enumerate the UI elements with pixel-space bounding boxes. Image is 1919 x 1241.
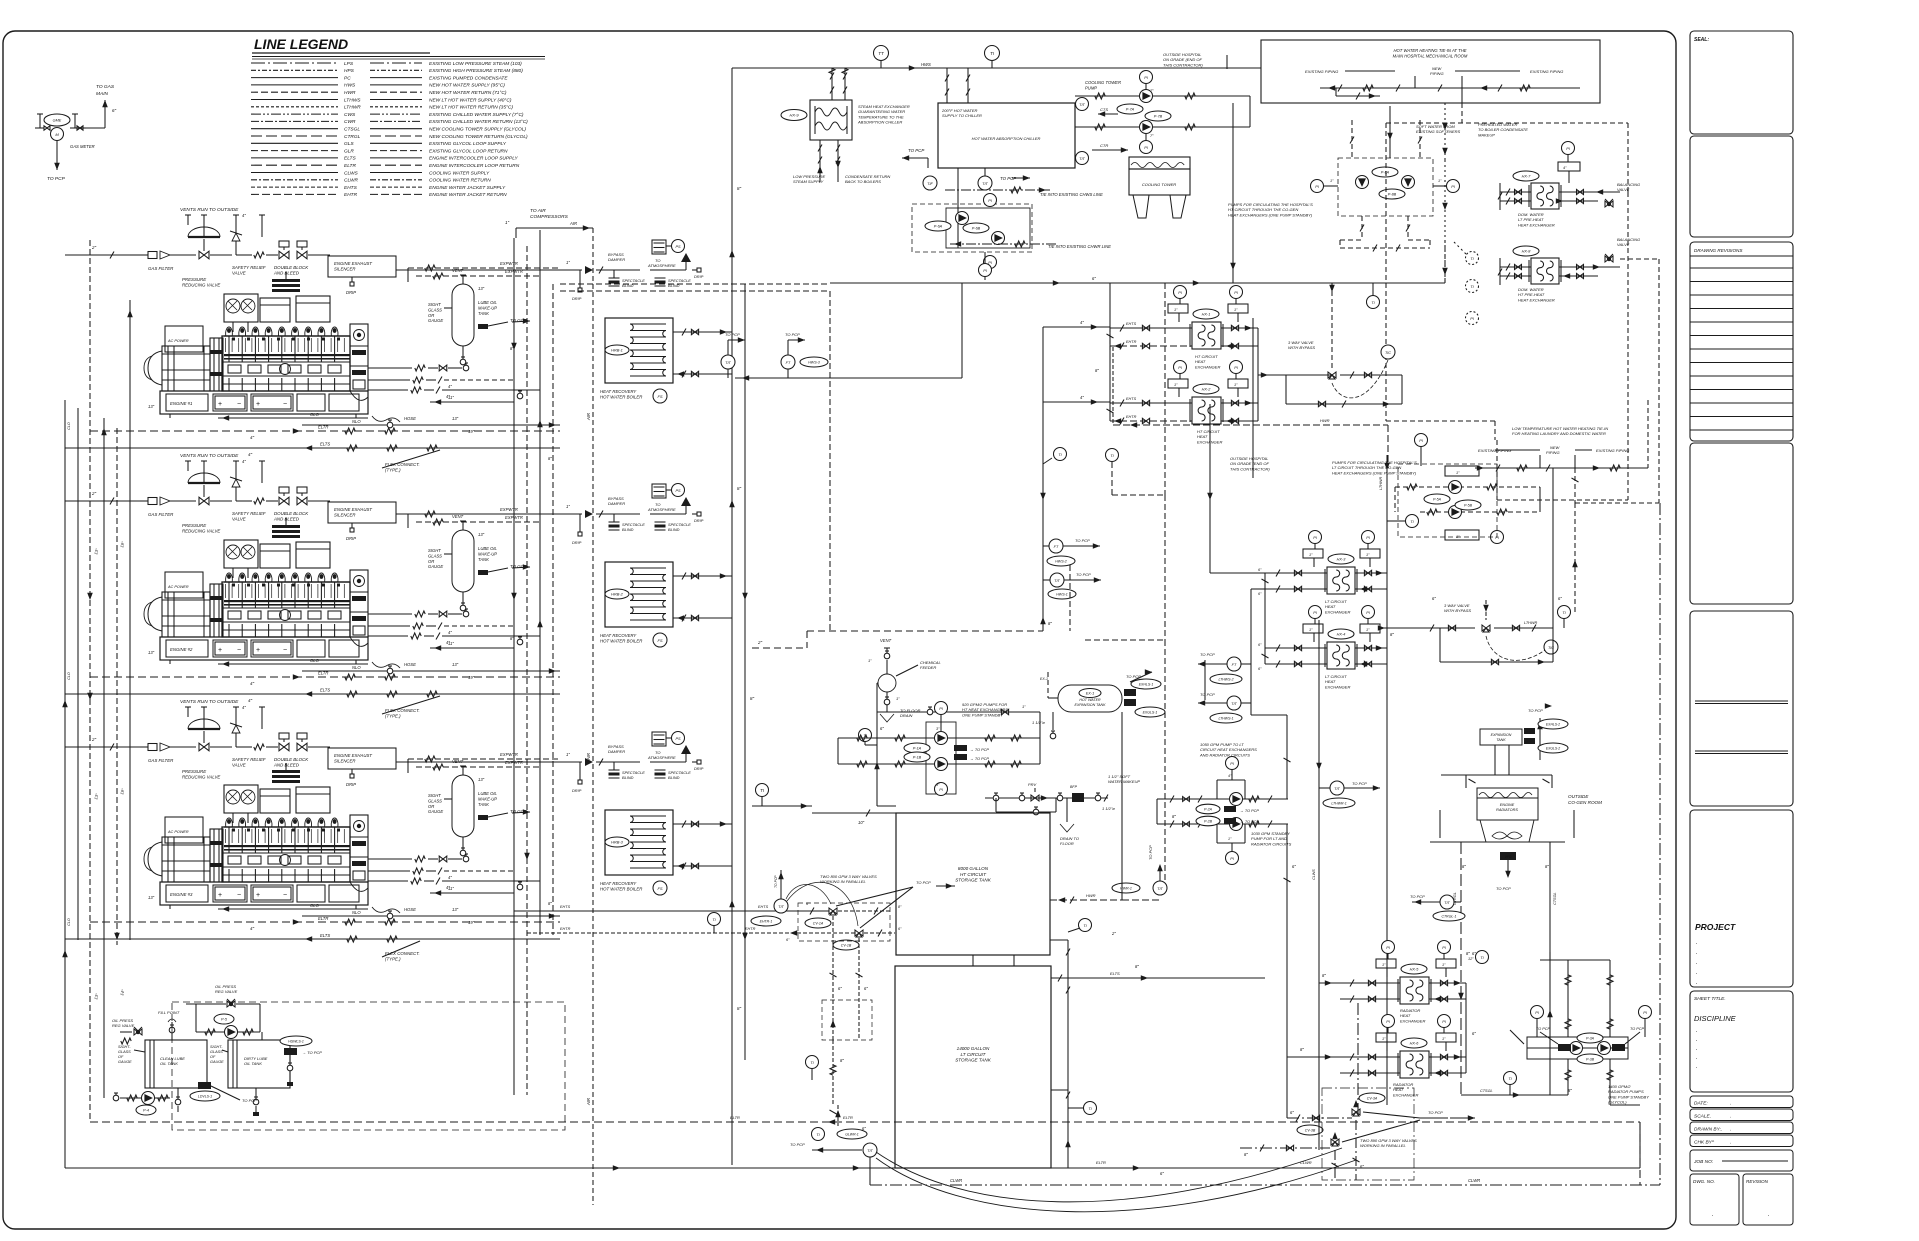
svg-text:6": 6" [1558, 596, 1562, 601]
svg-text:FS: FS [657, 886, 662, 891]
svg-text:2": 2" [91, 245, 97, 250]
svg-text:.: . [1696, 970, 1698, 976]
svg-text:DAMPER: DAMPER [608, 749, 625, 754]
svg-text:EXGLS-2: EXGLS-2 [1546, 747, 1560, 751]
svg-text:13": 13" [452, 416, 459, 421]
svg-text:EHTS: EHTS [344, 185, 358, 191]
svg-text:DRIP: DRIP [694, 518, 704, 523]
svg-text:8": 8" [1135, 964, 1139, 969]
svg-text:CTRGL-1: CTRGL-1 [1442, 915, 1457, 919]
svg-text:TO PCP: TO PCP [1496, 886, 1511, 891]
svg-text:EXPWTR: EXPWTR [500, 507, 518, 512]
center pipe bundle [513, 238, 515, 1095]
svg-text:8": 8" [840, 1058, 844, 1063]
svg-text:HSWLS-1: HSWLS-1 [288, 1040, 304, 1044]
svg-text:8": 8" [1462, 864, 1466, 869]
HWR short stub to HWR-1 oval [1122, 899, 1160, 901]
svg-text:LTHWR-1: LTHWR-1 [1331, 802, 1346, 806]
svg-text:JOB NO:: JOB NO: [1693, 1159, 1714, 1165]
svg-text:−: − [283, 647, 287, 654]
svg-text:VENTS RUN TO OUTSIDE: VENTS RUN TO OUTSIDE [180, 699, 239, 705]
svg-text:LPS: LPS [344, 61, 354, 67]
svg-text:EXHLS-1: EXHLS-1 [1139, 683, 1154, 687]
title block column [1690, 31, 1793, 134]
svg-text:TIT: TIT [778, 905, 784, 909]
svg-text:TIT: TIT [1079, 157, 1085, 161]
svg-text:EXISTING LOW PRESSURE STEAM (1: EXISTING LOW PRESSURE STEAM (103) [429, 61, 522, 67]
svg-text:CWR: CWR [344, 119, 356, 125]
svg-text:ELTR: ELTR [1096, 1160, 1106, 1165]
radiator heat exchanger HX-5 [1400, 977, 1429, 1004]
14000 gallon LT storage tank [895, 966, 1051, 1168]
svg-text:OUTSIDE: OUTSIDE [1568, 794, 1589, 799]
svg-text:DRIP: DRIP [346, 290, 356, 295]
svg-text:COMPRESSORS: COMPRESSORS [530, 214, 569, 220]
svg-text:ONE PUMP STANDBY: ONE PUMP STANDBY [962, 712, 1003, 717]
svg-text:−: − [237, 892, 241, 899]
bottom tank instruments [837, 1129, 867, 1139]
svg-text:12": 12" [1468, 957, 1474, 961]
hot water expansion tank EX-1 [1058, 685, 1122, 712]
engine3 lower lines [90, 921, 560, 923]
svg-text:TIT: TIT [1334, 787, 1340, 791]
svg-text:FS: FS [657, 394, 662, 399]
svg-text:6": 6" [1472, 1031, 1476, 1036]
svg-text:8": 8" [1466, 951, 1470, 956]
svg-text:MAKE-UP: MAKE-UP [478, 305, 497, 310]
svg-text:FILL POINT: FILL POINT [158, 1010, 180, 1015]
svg-text:SAFETY RELIEF: SAFETY RELIEF [232, 511, 266, 516]
svg-text:PROJECT: PROJECT [1695, 922, 1736, 932]
exhaust ducts silencer to boilers [396, 269, 560, 271]
svg-text:11": 11" [448, 641, 454, 646]
svg-text:GAS METER: GAS METER [70, 144, 95, 149]
horizontal dashed y=640 toward P-2 [1085, 639, 1165, 641]
svg-text:ENGINE INTERCOOLER LOOP SUPPLY: ENGINE INTERCOOLER LOOP SUPPLY [429, 156, 518, 162]
svg-text:EXPANSION TANK: EXPANSION TANK [1074, 703, 1106, 707]
hospital HT circulating pumps [1338, 158, 1433, 216]
svg-text:HWS-3: HWS-3 [808, 361, 820, 365]
bottom ELTS/ELTR runs [65, 1167, 1068, 1169]
svg-text:8": 8" [548, 456, 552, 461]
svg-text:+: + [256, 892, 260, 899]
svg-text:HWS: HWS [921, 62, 931, 67]
svg-text:13": 13" [148, 650, 155, 655]
svg-text:TIT: TIT [1444, 901, 1450, 905]
svg-text:ENGINE WATER JACKET SUPPLY: ENGINE WATER JACKET SUPPLY [429, 185, 506, 191]
svg-text:EXCHANGER: EXCHANGER [1325, 684, 1350, 689]
dashed enclosure around lube oil system [172, 1002, 565, 1130]
svg-text:10": 10" [858, 820, 865, 825]
svg-text:DOUBLE BLOCK: DOUBLE BLOCK [274, 511, 309, 516]
mid dashed verticals [829, 291, 831, 631]
svg-text:CV-1A: CV-1A [813, 922, 824, 926]
svg-text:TO PCP: TO PCP [1352, 781, 1367, 786]
svg-text:DRIP: DRIP [346, 536, 356, 541]
svg-text:2": 2" [757, 640, 763, 645]
svg-text:HX-8: HX-8 [1522, 250, 1532, 254]
svg-text:CLO: CLO [67, 918, 71, 926]
svg-text:LT CIRCUIT: LT CIRCUIT [961, 1052, 987, 1057]
svg-text:VENTS RUN TO OUTSIDE: VENTS RUN TO OUTSIDE [180, 453, 239, 459]
svg-text:7": 7" [1150, 88, 1154, 93]
expansion tank [1480, 729, 1522, 745]
dashed box around P-5 pumps [1398, 464, 1497, 537]
svg-text:PRESSURE: PRESSURE [182, 523, 206, 528]
svg-text:COOLING TOWER: COOLING TOWER [1085, 80, 1121, 85]
svg-text:DRAWN BY:.: DRAWN BY:. [1694, 1127, 1722, 1133]
svg-text:GAS FILTER: GAS FILTER [148, 266, 174, 271]
svg-text:TO PCP: TO PCP [1076, 572, 1091, 577]
svg-text:HX-6: HX-6 [1410, 1042, 1420, 1046]
svg-text:LTHWS: LTHWS [344, 97, 361, 103]
svg-text:GAUGE: GAUGE [428, 564, 443, 569]
svg-text:CV-3A: CV-3A [1367, 1097, 1378, 1101]
top hot water supply run [732, 67, 1261, 69]
svg-text:PRV: PRV [1028, 782, 1036, 787]
svg-text:EXCHANGER: EXCHANGER [1195, 364, 1220, 369]
svg-text:HOT WATER: HOT WATER [1079, 698, 1101, 702]
svg-text:NEW HOT WATER RETURN (71°C): NEW HOT WATER RETURN (71°C) [429, 90, 507, 96]
svg-text:CTSGL: CTSGL [344, 127, 360, 133]
svg-text:TIT: TIT [867, 1149, 873, 1153]
svg-text:COOLING TOWER: COOLING TOWER [1142, 182, 1176, 187]
svg-text:GAUGE: GAUGE [428, 809, 443, 814]
svg-text:ELTR: ELTR [344, 163, 356, 169]
svg-text:13": 13" [452, 907, 459, 912]
svg-text:CTSGL: CTSGL [1480, 1089, 1493, 1093]
svg-text:ELTS: ELTS [1110, 971, 1120, 976]
hose and lube lines [372, 907, 400, 913]
svg-text:→ TO PCP: → TO PCP [1240, 809, 1259, 813]
svg-text:P-7B: P-7B [1154, 115, 1163, 119]
svg-text:FT: FT [1054, 545, 1059, 549]
engine-generator set ENGINE #3 [160, 882, 368, 905]
svg-text:EXISTING HIGH PRESSURE STEAM (: EXISTING HIGH PRESSURE STEAM (880) [429, 68, 523, 74]
svg-text:6": 6" [1292, 864, 1296, 869]
svg-text:TIE INTO EXISTING CHWS LIN: TIE INTO EXISTING CHWS LINE [1040, 192, 1103, 197]
svg-text:VFD: VFD [1505, 855, 1512, 859]
svg-text:2": 2" [91, 737, 97, 742]
intercooler loop lines below engine Y0=538 [90, 676, 560, 678]
svg-text:TO PCP: TO PCP [790, 1142, 805, 1147]
svg-text:8": 8" [1545, 864, 1549, 869]
svg-text:AIR: AIR [569, 221, 577, 226]
svg-text:ELTR: ELTR [730, 1115, 740, 1120]
svg-text:STORAGE TANK: STORAGE TANK [955, 1058, 992, 1063]
svg-text:→ TO PCP: → TO PCP [302, 1050, 322, 1055]
svg-text:HRB-3: HRB-3 [611, 840, 624, 845]
svg-text:.: . [1730, 1140, 1731, 1146]
svg-text:WORKING IN PARALLEL: WORKING IN PARALLEL [820, 879, 866, 884]
svg-text:.: . [1730, 1101, 1731, 1107]
svg-text:TIT: TIT [1054, 579, 1060, 583]
CV-1A/CV-1B three-way valves [514, 910, 829, 912]
chemical feeder [807, 630, 1043, 632]
svg-text:SILENCER: SILENCER [334, 267, 356, 272]
svg-text:EXCHANGER: EXCHANGER [1393, 1092, 1418, 1097]
svg-text:ENGINE WATER JACKET RETURN: ENGINE WATER JACKET RETURN [429, 192, 507, 198]
svg-text:CLWR: CLWR [344, 178, 358, 184]
svg-text:OIL TANK: OIL TANK [244, 1061, 262, 1066]
svg-text:P-1B: P-1B [913, 756, 922, 760]
leader sweep curves [876, 1148, 1342, 1202]
main hot water risers [731, 68, 733, 1165]
svg-text:WORKING IN PARALLEL: WORKING IN PARALLEL [1360, 1143, 1406, 1148]
svg-text:LTHWR: LTHWR [1379, 477, 1383, 490]
svg-text:EXISTING CHILLED WATER SUPPLY: EXISTING CHILLED WATER SUPPLY (7°C) [429, 112, 524, 118]
svg-text:HOT WATER ABSORPTION CHILLE: HOT WATER ABSORPTION CHILLER [972, 136, 1041, 141]
svg-text:TO GAS: TO GAS [96, 84, 115, 90]
svg-text:GLS: GLS [344, 141, 354, 147]
svg-text:4": 4" [242, 459, 246, 464]
svg-text:COOLING WATER RETURN: COOLING WATER RETURN [429, 178, 491, 184]
svg-text:.: . [1712, 1212, 1714, 1218]
svg-text:4": 4" [248, 452, 253, 457]
hose and lube lines [372, 662, 400, 668]
svg-text:STORAGE TANK: STORAGE TANK [955, 878, 992, 883]
svg-text:−: − [237, 647, 241, 654]
radiator heat exchanger HX-6 [1400, 1051, 1429, 1078]
svg-text:GLASS: GLASS [118, 1050, 131, 1054]
svg-text:ELTR: ELTR [318, 916, 328, 921]
svg-text:FOR HEATING LAUNDRY AND DO: FOR HEATING LAUNDRY AND DOMESTIC WATER [1512, 431, 1606, 436]
svg-text:GLASS: GLASS [428, 553, 442, 558]
svg-text:−: − [283, 401, 287, 408]
svg-text:REDUCING VALVE: REDUCING VALVE [182, 283, 220, 288]
LT circuit heat exchanger HX-3 [1327, 567, 1355, 594]
svg-text:CV-3B: CV-3B [1305, 1129, 1316, 1133]
intercooler loop lines below engine Y0=292 [90, 430, 560, 432]
svg-text:EXISTING CHILLED WATER RETURN: EXISTING CHILLED WATER RETURN (13°C) [429, 119, 528, 125]
svg-text:PS: PS [675, 737, 681, 741]
svg-text:EXPWTR: EXPWTR [500, 261, 518, 266]
svg-text:EXHLS-2: EXHLS-2 [1546, 723, 1560, 727]
hose and lube lines [372, 416, 400, 422]
svg-text:NEW LT HOT WATER RETURN (35°C): NEW LT HOT WATER RETURN (35°C) [429, 105, 513, 111]
HT circuit heat exchanger HX-1 [1192, 322, 1221, 349]
svg-text:DRIP: DRIP [694, 766, 704, 771]
svg-text:LINE LEGEND: LINE LEGEND [254, 36, 348, 52]
svg-text:ENGINE EXHAUST: ENGINE EXHAUST [334, 753, 372, 758]
soft water line [1444, 103, 1446, 160]
svg-text:GAUGE: GAUGE [428, 318, 443, 323]
svg-text:NEW COOLING TOWER SUPPLY (GLYC: NEW COOLING TOWER SUPPLY (GLYCOL) [429, 127, 526, 133]
svg-text:ATMOSPHERE: ATMOSPHERE [647, 755, 676, 760]
svg-text:4": 4" [1080, 395, 1084, 400]
svg-text:GAS FILTER: GAS FILTER [148, 512, 174, 517]
svg-text:TIF: TIF [927, 182, 933, 186]
svg-text:HEAT EXCHANGERS (ONE PUMP: HEAT EXCHANGERS (ONE PUMP STANDBY) [1332, 470, 1417, 475]
svg-text:EHTR: EHTR [1126, 340, 1137, 344]
svg-text:PUMP: PUMP [1085, 85, 1097, 90]
heat recovery boiler HRB-2 [560, 513, 582, 515]
svg-text:1": 1" [566, 752, 570, 757]
svg-text:GLASS: GLASS [210, 1050, 223, 1054]
svg-text:HOT WATER BOILER: HOT WATER BOILER [600, 887, 642, 892]
svg-text:TANK: TANK [478, 802, 489, 807]
svg-text:HWR: HWR [1086, 893, 1096, 898]
svg-text:DOUBLE BLOCK: DOUBLE BLOCK [274, 757, 309, 762]
misc long connectors [560, 283, 830, 285]
svg-text:OR: OR [428, 559, 434, 564]
svg-text:ENGINE: ENGINE [1500, 803, 1515, 807]
svg-text:NLO: NLO [352, 665, 361, 670]
svg-text:CTR: CTR [1100, 143, 1108, 148]
svg-text:HWS: HWS [344, 83, 356, 89]
svg-text:EXCHANGER: EXCHANGER [1400, 1018, 1425, 1023]
svg-text:VALVE: VALVE [232, 763, 246, 768]
svg-text:8": 8" [1322, 973, 1326, 978]
svg-text:P-8A: P-8A [1381, 171, 1390, 175]
svg-text:P-2B: P-2B [1204, 820, 1213, 824]
lube oil make-up tank [452, 775, 474, 837]
svg-text:GLASS: GLASS [428, 798, 442, 803]
svg-text:SIGHT: SIGHT [428, 302, 441, 307]
svg-text:EHTS: EHTS [1126, 397, 1137, 401]
engine coolant connections right side Y0=538 [368, 613, 412, 615]
svg-text:6": 6" [112, 108, 117, 113]
svg-text:GAUGE: GAUGE [118, 1060, 132, 1064]
svg-text:6": 6" [1432, 596, 1436, 601]
svg-text:+: + [218, 892, 222, 899]
svg-text:HWR: HWR [1320, 418, 1330, 423]
svg-text:SIGHT-: SIGHT- [118, 1045, 131, 1049]
svg-text:(TYPE.): (TYPE.) [385, 468, 401, 473]
svg-text:DRIP: DRIP [572, 296, 582, 301]
svg-text:NEW LT HOT WATER SUPPLY (40°C): NEW LT HOT WATER SUPPLY (40°C) [429, 97, 512, 103]
tie-in box to main line connector [1232, 103, 1234, 283]
lube oil make-up tank [452, 530, 474, 592]
svg-text:6": 6" [864, 986, 868, 991]
svg-text:4": 4" [250, 926, 255, 931]
svg-text:4": 4" [1080, 320, 1084, 325]
svg-text:TO PCP: TO PCP [1410, 894, 1425, 899]
svg-text:HEAT EXCHANGER: HEAT EXCHANGER [1518, 222, 1555, 227]
svg-text:REG VALVE: REG VALVE [112, 1023, 135, 1028]
svg-text:TANK: TANK [478, 311, 489, 316]
svg-text:WITH BYPASS: WITH BYPASS [1444, 608, 1471, 613]
svg-text:.: . [1730, 1114, 1731, 1120]
svg-text:HOT WATER BOILER: HOT WATER BOILER [600, 395, 642, 400]
svg-text:DATE:: DATE: [1694, 1101, 1708, 1107]
svg-text:EXISTING PIPING: EXISTING PIPING [1596, 448, 1629, 453]
svg-text:REG VALVE: REG VALVE [215, 989, 238, 994]
svg-text:TIC: TIC [1385, 351, 1391, 355]
svg-text:TO AIR: TO AIR [530, 208, 546, 214]
heat recovery boiler HRB-3 [560, 761, 582, 763]
svg-text:NLO: NLO [352, 419, 361, 424]
svg-text:BLIND: BLIND [668, 527, 680, 532]
svg-text:P-6A: P-6A [934, 225, 943, 229]
svg-text:DAMPER: DAMPER [608, 501, 625, 506]
svg-text:13": 13" [148, 404, 155, 409]
svg-text:P-7A: P-7A [1126, 108, 1135, 112]
dom water LT pre-heat HX-7 [1531, 183, 1559, 209]
hot water heating tie-in box [1261, 40, 1600, 103]
right edge CLWR riser [1659, 503, 1661, 1185]
svg-text:PRESSURE: PRESSURE [182, 277, 206, 282]
svg-text:CTS: CTS [1100, 107, 1108, 112]
svg-text:ENGINE #3: ENGINE #3 [170, 892, 193, 897]
svg-text:ABSORPTION CHILLER: ABSORPTION CHILLER [857, 120, 902, 125]
svg-text:CLWS: CLWS [1312, 869, 1316, 880]
P-1A / P-1B HT pumps [877, 711, 1040, 713]
engine-generator set ENGINE #2 [160, 637, 368, 660]
svg-text:8": 8" [1390, 632, 1394, 637]
svg-text:P-5: P-5 [221, 1018, 228, 1022]
svg-text:HX-4: HX-4 [1337, 633, 1346, 637]
svg-text:4": 4" [448, 384, 452, 389]
svg-text:ENGINE EXHAUST: ENGINE EXHAUST [334, 507, 372, 512]
svg-text:8": 8" [1300, 1047, 1304, 1052]
svg-text:TO PCP: TO PCP [1536, 1027, 1551, 1031]
svg-text:ENGINE #2: ENGINE #2 [170, 647, 193, 652]
svg-text:6": 6" [1160, 1171, 1164, 1176]
heat recovery boiler HRB-1 [560, 269, 582, 271]
svg-text:.: . [1696, 980, 1698, 986]
svg-text:8": 8" [750, 696, 755, 701]
svg-text:→ TO PCP: → TO PCP [1240, 820, 1259, 824]
svg-text:P-3A: P-3A [1586, 1037, 1595, 1041]
svg-text:1": 1" [1022, 704, 1026, 709]
svg-text:.: . [1696, 960, 1698, 966]
svg-text:HRB-1: HRB-1 [611, 348, 623, 353]
svg-text:11": 11" [448, 886, 454, 891]
HT circuit heat exchanger HX-2 [1192, 397, 1221, 424]
svg-text:(TYPE.): (TYPE.) [385, 714, 401, 719]
engine coolant connections right side Y0=292 [368, 367, 412, 369]
svg-text:2": 2" [1111, 931, 1116, 936]
svg-text:AND RADIATOR CIRCUITS: AND RADIATOR CIRCUITS [1199, 752, 1250, 757]
svg-text:LTHWS-2: LTHWS-2 [1218, 678, 1233, 682]
svg-text:4": 4" [250, 681, 255, 686]
svg-text:P-5A: P-5A [1433, 498, 1442, 502]
svg-text:REVISION: REVISION [1746, 1179, 1769, 1184]
svg-text:HX-2: HX-2 [1202, 388, 1212, 392]
P-3A/P-3B radiator pumps [1527, 1037, 1628, 1059]
svg-text:NLO: NLO [352, 910, 361, 915]
upper horizontal main y=283 [962, 282, 1445, 284]
svg-text:8": 8" [737, 1006, 742, 1011]
svg-text:11": 11" [448, 395, 454, 400]
left pipe bundle [77, 408, 79, 940]
svg-text:CLO: CLO [67, 672, 71, 680]
svg-text:PS: PS [675, 245, 681, 249]
svg-text:WATER MAKEUP: WATER MAKEUP [1108, 779, 1140, 784]
svg-text:LTHWR: LTHWR [1524, 621, 1537, 625]
svg-text:NEW COOLING TOWER RETURN (GLYC: NEW COOLING TOWER RETURN (GLYCOL) [429, 134, 528, 140]
svg-text:HOT WATER BOILER: HOT WATER BOILER [600, 639, 642, 644]
svg-text:TO PCP: TO PCP [774, 875, 778, 888]
svg-text:HX-5: HX-5 [1410, 968, 1420, 972]
svg-text:AIR: AIR [586, 1098, 591, 1106]
svg-text:HOSE: HOSE [404, 416, 416, 421]
svg-text:P-1A: P-1A [913, 747, 922, 751]
svg-text:EHTS: EHTS [560, 905, 571, 909]
svg-text:REDUCING VALVE: REDUCING VALVE [182, 775, 220, 780]
EHTR dashed vertical near HX-1/2 [1112, 347, 1114, 425]
svg-text:ELTS: ELTS [320, 442, 330, 447]
svg-text:8": 8" [1095, 368, 1099, 373]
svg-text:CTSGL: CTSGL [1553, 892, 1557, 905]
svg-text:CO-GEN ROOM: CO-GEN ROOM [1568, 800, 1602, 805]
soft water makeup PRV [985, 797, 1108, 799]
svg-text:8": 8" [737, 486, 742, 491]
svg-text:+: + [218, 401, 222, 408]
svg-text:HOSE: HOSE [404, 662, 416, 667]
svg-text:SIGHT-: SIGHT- [210, 1045, 223, 1049]
